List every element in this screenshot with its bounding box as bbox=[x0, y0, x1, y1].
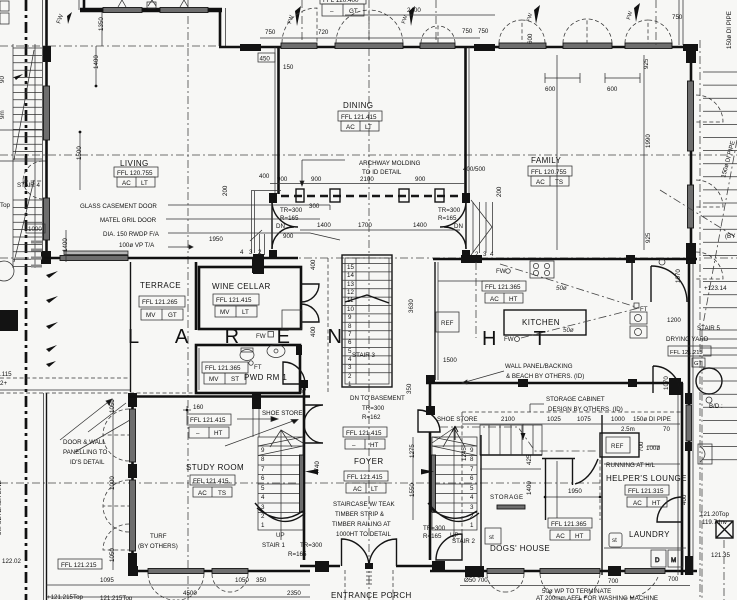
svg-text:FW: FW bbox=[55, 13, 65, 25]
svg-text:1700: 1700 bbox=[358, 222, 372, 229]
svg-text:FW: FW bbox=[526, 12, 534, 23]
svg-text:FFL 121.415: FFL 121.415 bbox=[190, 417, 226, 424]
stair2 curtail curves bbox=[428, 503, 479, 521]
svg-text:350: 350 bbox=[256, 577, 267, 584]
svg-text:HELPER'S LOUNGE: HELPER'S LOUNGE bbox=[606, 474, 687, 483]
svg-text:150: 150 bbox=[283, 64, 294, 71]
study left windows bbox=[130, 409, 136, 462]
svg-text:SHOE STORE: SHOE STORE bbox=[437, 416, 477, 423]
svg-text:TS: TS bbox=[555, 179, 563, 186]
wine cellar top block bbox=[252, 259, 263, 273]
stair1 rail strip bbox=[300, 455, 304, 512]
svg-text:450: 450 bbox=[260, 56, 271, 63]
svg-text:DESIGN BY OTHERS. (ID): DESIGN BY OTHERS. (ID) bbox=[548, 406, 623, 413]
svg-text:1400: 1400 bbox=[62, 238, 69, 252]
grid line y155 bbox=[0, 154, 737, 156]
st box bbox=[609, 533, 622, 547]
scissor door living bbox=[271, 201, 273, 249]
STAIR 3 bbox=[342, 255, 392, 388]
svg-text:WALL PANEL/BACKING: WALL PANEL/BACKING bbox=[505, 363, 573, 370]
grid line x302 bbox=[301, 0, 303, 46]
STUDY ROOM walls bbox=[103, 393, 310, 575]
svg-text:R=165: R=165 bbox=[438, 215, 457, 222]
svg-text:TIMBER STRIP &: TIMBER STRIP & bbox=[335, 511, 385, 518]
svg-text:HT: HT bbox=[509, 296, 518, 303]
laundry door arc bbox=[657, 497, 682, 522]
svg-text:1400: 1400 bbox=[93, 55, 100, 69]
svg-text:MV: MV bbox=[146, 312, 156, 319]
svg-text:7: 7 bbox=[470, 466, 474, 473]
svg-text:1000: 1000 bbox=[28, 226, 42, 233]
grid line y483 bbox=[0, 482, 602, 484]
svg-text:STAIR 5: STAIR 5 bbox=[697, 325, 720, 332]
svg-text:FW: FW bbox=[504, 336, 514, 343]
svg-text:200: 200 bbox=[222, 185, 229, 196]
svg-text:STUDY ROOM: STUDY ROOM bbox=[186, 463, 244, 472]
block above door bbox=[269, 193, 277, 203]
svg-text:LT: LT bbox=[141, 180, 148, 187]
svg-text:350: 350 bbox=[406, 383, 413, 394]
svg-text:H T: H T bbox=[482, 328, 562, 350]
svg-text:1: 1 bbox=[261, 522, 265, 529]
kitchen wall block2 bbox=[626, 255, 635, 263]
svg-text:FFL 121.365: FFL 121.365 bbox=[205, 365, 241, 372]
svg-text:720: 720 bbox=[318, 29, 329, 36]
svg-text:150ø DI PIPE: 150ø DI PIPE bbox=[726, 11, 733, 49]
stair2 numbers bbox=[470, 447, 474, 529]
WALLS-TOP bbox=[79, 0, 698, 51]
svg-text:PWD RM 1: PWD RM 1 bbox=[244, 373, 287, 382]
dining left wall upper bbox=[277, 47, 280, 194]
STAIR4 left bbox=[13, 44, 45, 268]
left wall block bottom bbox=[41, 251, 51, 264]
svg-text:750: 750 bbox=[462, 28, 473, 35]
svg-text:AC: AC bbox=[198, 490, 207, 497]
svg-text:121.35: 121.35 bbox=[711, 552, 730, 559]
DOGS ffl bbox=[548, 518, 592, 540]
stair2 rail strip bbox=[432, 455, 436, 512]
svg-text:1070: 1070 bbox=[675, 269, 682, 283]
right wall window 1 bbox=[688, 81, 694, 151]
svg-text:R=165: R=165 bbox=[423, 533, 442, 540]
svg-text:590: 590 bbox=[301, 380, 308, 391]
stair3 treads bbox=[342, 264, 392, 373]
top wall black block3 bbox=[683, 44, 698, 51]
shoe store door arc bbox=[304, 405, 323, 443]
corridor top wall y383 bbox=[426, 382, 683, 385]
svg-text:FFL 121.415.: FFL 121.415. bbox=[193, 478, 230, 485]
svg-text:STORAGE: STORAGE bbox=[490, 494, 524, 501]
stair3 outer box bbox=[342, 255, 392, 387]
svg-text:13: 13 bbox=[347, 281, 354, 288]
svg-text:HT: HT bbox=[652, 500, 661, 507]
svg-text:LAUNDRY: LAUNDRY bbox=[629, 530, 670, 539]
family left wall upper bbox=[464, 47, 467, 194]
bottom wall blocks bbox=[128, 566, 138, 576]
dy box with X bbox=[716, 521, 733, 538]
window sill top-left 1 bbox=[103, 8, 142, 13]
STUDY ffl bbox=[190, 475, 235, 497]
kitchen wall block1 bbox=[461, 255, 482, 263]
kitchen rear door arc bbox=[651, 266, 687, 302]
svg-text:SHOE STORE: SHOE STORE bbox=[262, 410, 302, 417]
counter lines bbox=[438, 280, 520, 282]
svg-text:TS: TS bbox=[218, 490, 226, 497]
svg-text:& BEACH BY OTHERS. (ID): & BEACH BY OTHERS. (ID) bbox=[506, 373, 584, 380]
left wall window2 bbox=[44, 198, 50, 240]
stair4 side rails bbox=[12, 44, 14, 268]
svg-text:TR=300: TR=300 bbox=[280, 207, 303, 214]
bottom wall main bbox=[128, 570, 310, 573]
storage left wall bbox=[480, 435, 482, 567]
svg-text:100ø VP T/A: 100ø VP T/A bbox=[119, 242, 155, 249]
setback dashdot vertical line bbox=[25, 0, 28, 600]
svg-text:3: 3 bbox=[348, 364, 352, 371]
svg-text:STAIR 3: STAIR 3 bbox=[352, 352, 375, 359]
stair1 arrow bbox=[305, 469, 318, 475]
living bottom sill upper bbox=[64, 251, 128, 255]
manhole circle bbox=[0, 261, 14, 281]
right wall window 2 bbox=[688, 185, 694, 228]
svg-text:400: 400 bbox=[259, 173, 270, 180]
svg-text:DN: DN bbox=[276, 223, 285, 230]
svg-text:MV: MV bbox=[220, 309, 230, 316]
right wall block top bbox=[686, 47, 696, 63]
svg-text:7: 7 bbox=[348, 331, 352, 338]
stair1 numbers bbox=[261, 447, 265, 529]
ARCHWAY dashed line with pilasters bbox=[240, 189, 494, 258]
svg-text:FFL 121.265: FFL 121.265 bbox=[142, 299, 178, 306]
DINING-LIVING divider x278 bbox=[251, 47, 298, 259]
stove bbox=[530, 261, 554, 278]
right wall block bottom bbox=[686, 243, 696, 264]
svg-text:700: 700 bbox=[668, 576, 679, 583]
svg-text:925: 925 bbox=[645, 232, 652, 243]
TOPRIGHT ffl bbox=[320, 0, 366, 16]
stair2 arrow bbox=[421, 469, 434, 475]
svg-text:50ø: 50ø bbox=[556, 285, 567, 292]
svg-text:R=162: R=162 bbox=[362, 414, 381, 421]
svg-text:1950: 1950 bbox=[209, 236, 223, 243]
block below door bbox=[462, 250, 470, 259]
svg-text:STORAGE CABINET: STORAGE CABINET bbox=[546, 396, 605, 403]
svg-text:HT: HT bbox=[370, 442, 379, 449]
turf boundary y392 bbox=[0, 389, 130, 391]
black rect bottom-left bbox=[0, 310, 18, 331]
svg-text:700: 700 bbox=[608, 578, 619, 585]
svg-text:AC: AC bbox=[556, 533, 565, 540]
svg-text:2: 2 bbox=[348, 373, 352, 380]
wall step vertical x222 bbox=[219, 8, 222, 46]
porch casement arcs below bbox=[148, 574, 204, 600]
window sill family 2 bbox=[563, 43, 612, 49]
svg-text:AC: AC bbox=[490, 296, 499, 303]
svg-text:400/500: 400/500 bbox=[463, 166, 486, 173]
grid line y130 left bbox=[0, 129, 46, 131]
svg-text:MV: MV bbox=[209, 376, 219, 383]
scissor door family bbox=[465, 201, 467, 249]
foyer right wall bbox=[429, 380, 432, 415]
svg-text:3: 3 bbox=[483, 251, 487, 258]
svg-text:8: 8 bbox=[348, 323, 352, 330]
svg-text:STAIR 2: STAIR 2 bbox=[452, 538, 475, 545]
svg-text:3: 3 bbox=[249, 249, 253, 256]
stair2 box bbox=[432, 437, 477, 530]
svg-text:M: M bbox=[671, 557, 676, 564]
svg-text:+123.14: +123.14 bbox=[704, 285, 727, 292]
svg-text:50ø: 50ø bbox=[563, 327, 574, 334]
terrace right wall x196 bbox=[130, 262, 132, 392]
svg-text:4: 4 bbox=[240, 249, 244, 256]
DRYING ffl bbox=[668, 346, 711, 367]
svg-text:1: 1 bbox=[348, 381, 352, 388]
left wall block top bbox=[43, 46, 51, 62]
svg-text:FFL 121.315: FFL 121.315 bbox=[628, 488, 664, 495]
stair1 box bbox=[258, 437, 303, 530]
svg-text:FW: FW bbox=[401, 14, 409, 25]
svg-text:1050: 1050 bbox=[235, 577, 249, 584]
svg-text:(BY OTHERS): (BY OTHERS) bbox=[138, 543, 178, 550]
terrace/wine divider x196 bbox=[195, 262, 198, 330]
WATERMARK bbox=[128, 326, 562, 350]
FOYER-TOP ffl bbox=[343, 427, 387, 449]
svg-text:DN: DN bbox=[454, 223, 463, 230]
drying window bbox=[686, 405, 692, 441]
svg-text:1095: 1095 bbox=[100, 577, 114, 584]
svg-text:121.215Top: 121.215Top bbox=[100, 595, 133, 600]
KITCHEN ffl bbox=[482, 281, 526, 303]
REF closet top bbox=[600, 433, 639, 457]
svg-text:WINE CELLAR: WINE CELLAR bbox=[212, 282, 271, 291]
pipe dashdot bbox=[500, 264, 639, 308]
svg-text:GLASS CASEMENT DOOR: GLASS CASEMENT DOOR bbox=[80, 203, 157, 210]
svg-text:HT: HT bbox=[214, 430, 223, 437]
svg-text:1070: 1070 bbox=[663, 376, 670, 390]
svg-text:AT 200mm AFFL FOR WASHING MACH: AT 200mm AFFL FOR WASHING MACHINE bbox=[536, 595, 658, 600]
MID-WALL RIGHT (kitchen top) y259 bbox=[433, 255, 697, 263]
svg-text:MATEL GRIL DOOR: MATEL GRIL DOOR bbox=[100, 217, 157, 224]
block above door bbox=[462, 193, 470, 203]
svg-text:1075: 1075 bbox=[577, 416, 591, 423]
small steps marks 432 bbox=[250, 191, 265, 255]
WALL-LEFT bbox=[23, 0, 51, 264]
svg-text:4740: 4740 bbox=[314, 461, 321, 475]
svg-text:12: 12 bbox=[347, 289, 354, 296]
svg-text:.115: .115 bbox=[0, 371, 12, 378]
FAMILY ffl bbox=[528, 166, 572, 186]
TERRACE area bbox=[0, 262, 196, 600]
svg-text:FFL 121.365: FFL 121.365 bbox=[551, 521, 587, 528]
svg-text:STAIRCASE W/ TEAK: STAIRCASE W/ TEAK bbox=[333, 501, 396, 508]
svg-text:DOOR & WALL: DOOR & WALL bbox=[63, 439, 106, 446]
door arcs above dining wall bbox=[282, 8, 317, 43]
svg-text:10: 10 bbox=[347, 306, 354, 313]
washer dryer bbox=[604, 548, 686, 567]
study left wall bbox=[131, 393, 134, 575]
top wall black block1 bbox=[240, 44, 261, 51]
window sill dining 2 bbox=[335, 43, 403, 49]
svg-text:FFL 121.215: FFL 121.215 bbox=[670, 350, 703, 356]
left wall double line bbox=[45, 0, 48, 264]
svg-text:1350: 1350 bbox=[98, 17, 105, 31]
mid wall black block bbox=[253, 254, 264, 274]
svg-text:900: 900 bbox=[415, 176, 426, 183]
svg-text:RUNNING AT H/L: RUNNING AT H/L bbox=[606, 462, 655, 469]
svg-text:160: 160 bbox=[193, 404, 204, 411]
dim arrow 425 bbox=[522, 424, 524, 440]
sink laundry bbox=[485, 528, 501, 544]
svg-text:AC: AC bbox=[633, 500, 642, 507]
svg-text:4: 4 bbox=[490, 251, 494, 258]
pwd block right bbox=[296, 345, 302, 355]
LIVING ffl bbox=[114, 167, 158, 187]
dashed yard line y378 bbox=[0, 377, 130, 379]
corridor wall blocks bbox=[669, 378, 681, 395]
top wall black block2 bbox=[474, 44, 495, 51]
svg-text:FFL 121.415: FFL 121.415 bbox=[347, 474, 383, 481]
svg-text:900: 900 bbox=[283, 233, 294, 240]
dogs house door arc bbox=[436, 534, 462, 560]
stair3 break mark bbox=[345, 295, 389, 303]
svg-text:FW: FW bbox=[496, 268, 506, 275]
svg-text:1000: 1000 bbox=[611, 416, 625, 423]
svg-text:122.02: 122.02 bbox=[2, 558, 21, 565]
STAIR 1 bbox=[255, 430, 318, 540]
svg-text:1: 1 bbox=[467, 251, 471, 258]
svg-text:LT: LT bbox=[242, 309, 249, 316]
svg-text:FFL 121.415: FFL 121.415 bbox=[341, 114, 377, 121]
stair1 treads bbox=[258, 446, 303, 513]
helper opening dashed bbox=[599, 460, 601, 520]
stair4 treads bbox=[13, 48, 42, 159]
helper left wall x602 bbox=[601, 415, 603, 575]
block below door bbox=[269, 250, 277, 259]
svg-text:9: 9 bbox=[470, 447, 474, 454]
basin bbox=[267, 345, 285, 358]
wine cellar box bbox=[199, 267, 301, 329]
svg-text:PANELLING TO: PANELLING TO bbox=[63, 449, 108, 456]
svg-text:ENTRANCE PORCH: ENTRANCE PORCH bbox=[331, 591, 412, 600]
svg-text:REF: REF bbox=[611, 443, 624, 450]
boundary arrows bbox=[46, 271, 58, 367]
top-left boxes bbox=[0, 1, 9, 11]
svg-text:HT: HT bbox=[575, 533, 584, 540]
RIGHT LOWER WALLS bbox=[426, 264, 693, 575]
svg-text:GT: GT bbox=[349, 8, 358, 15]
svg-text:FOYER: FOYER bbox=[354, 457, 384, 466]
svg-text:FT: FT bbox=[254, 364, 262, 371]
svg-text:900: 900 bbox=[277, 176, 288, 183]
svg-text:DINING: DINING bbox=[343, 101, 373, 110]
FOYER walls bbox=[300, 375, 440, 560]
svg-text:UP: UP bbox=[276, 532, 285, 539]
DINING ffl bbox=[338, 111, 382, 131]
pwd walls bbox=[196, 345, 300, 393]
svg-text:DOGS' HOUSE: DOGS' HOUSE bbox=[490, 544, 550, 553]
svg-text:70: 70 bbox=[663, 426, 670, 433]
pwd door arc bbox=[283, 362, 305, 384]
svg-text:7: 7 bbox=[261, 466, 265, 473]
svg-text:6: 6 bbox=[261, 475, 265, 482]
svg-text:1400: 1400 bbox=[317, 222, 331, 229]
window sill dining 1 bbox=[281, 43, 317, 49]
svg-text:TR=300: TR=300 bbox=[362, 405, 385, 412]
svg-text:4500: 4500 bbox=[183, 590, 197, 597]
svg-text:TR=300: TR=300 bbox=[438, 207, 461, 214]
foyer left top block bbox=[300, 380, 308, 388]
grid line x436 bbox=[435, 0, 437, 46]
living bottom sill bbox=[60, 256, 128, 261]
svg-text:FFL 121.215: FFL 121.215 bbox=[61, 562, 97, 569]
svg-text:D: D bbox=[655, 557, 660, 564]
study top block right bbox=[252, 393, 261, 409]
svg-text:AC: AC bbox=[122, 180, 131, 187]
svg-text:st: st bbox=[489, 534, 494, 541]
kitchen left wall bbox=[434, 262, 436, 380]
svg-text:FFL 120.755: FFL 120.755 bbox=[531, 169, 567, 176]
svg-text:2350: 2350 bbox=[287, 590, 301, 597]
grid line y46 bbox=[0, 45, 222, 47]
pwd left inner line bbox=[198, 348, 200, 390]
svg-text:TURF: TURF bbox=[150, 533, 167, 540]
stair3 numbers bbox=[347, 264, 354, 388]
BOTTOM WALL bbox=[128, 539, 697, 600]
door arc foyer right bbox=[418, 410, 440, 432]
FAMILY divider x465 bbox=[440, 47, 470, 259]
svg-text:KITCHEN: KITCHEN bbox=[522, 318, 560, 327]
svg-text:–: – bbox=[330, 8, 334, 15]
svg-text:3M SETBACK LINE: 3M SETBACK LINE bbox=[0, 480, 3, 535]
toilet bbox=[240, 350, 254, 361]
wall top-left y10 bbox=[80, 8, 222, 13]
wine cellar door leaf bbox=[301, 284, 319, 302]
svg-text:FFL 120.400: FFL 120.400 bbox=[323, 0, 359, 4]
PWD RM 1 bbox=[196, 345, 305, 394]
kitchen top wall bbox=[433, 258, 697, 261]
450 box bbox=[258, 53, 275, 62]
island bbox=[504, 310, 586, 335]
dashed cabinet line bbox=[462, 411, 683, 413]
stair4 door arcs bbox=[23, 161, 43, 181]
svg-text:600: 600 bbox=[545, 86, 556, 93]
svg-text:TIMBER RAILING AT: TIMBER RAILING AT bbox=[332, 521, 391, 528]
svg-text:2100: 2100 bbox=[501, 416, 515, 423]
svg-text:1275: 1275 bbox=[409, 444, 416, 458]
STAIR 2 bbox=[421, 428, 479, 540]
foyer left wall bbox=[303, 380, 306, 440]
svg-text:ARCHWAY MOLDING: ARCHWAY MOLDING bbox=[359, 160, 421, 167]
svg-text:400: 400 bbox=[310, 259, 317, 270]
svg-text:1990: 1990 bbox=[645, 134, 652, 148]
study left blocks bbox=[128, 393, 137, 407]
svg-text:TERRACE: TERRACE bbox=[140, 281, 181, 290]
svg-text:LT: LT bbox=[365, 124, 372, 131]
svg-text:–: – bbox=[196, 430, 200, 437]
WINE ffl bbox=[213, 294, 259, 317]
svg-text:8: 8 bbox=[470, 456, 474, 463]
stair3 number divider bbox=[355, 258, 357, 384]
window sill dining 3 bbox=[420, 43, 455, 49]
left boundary wall lower bbox=[43, 393, 45, 600]
svg-text:200: 200 bbox=[496, 186, 503, 197]
svg-text:14: 14 bbox=[347, 272, 354, 279]
svg-text:R=165: R=165 bbox=[280, 215, 299, 222]
svg-text:15: 15 bbox=[347, 264, 354, 271]
svg-text:6: 6 bbox=[348, 339, 352, 346]
svg-text:6: 6 bbox=[470, 475, 474, 482]
shoe store arrow bbox=[452, 426, 458, 440]
PWD ffl bbox=[202, 362, 248, 384]
